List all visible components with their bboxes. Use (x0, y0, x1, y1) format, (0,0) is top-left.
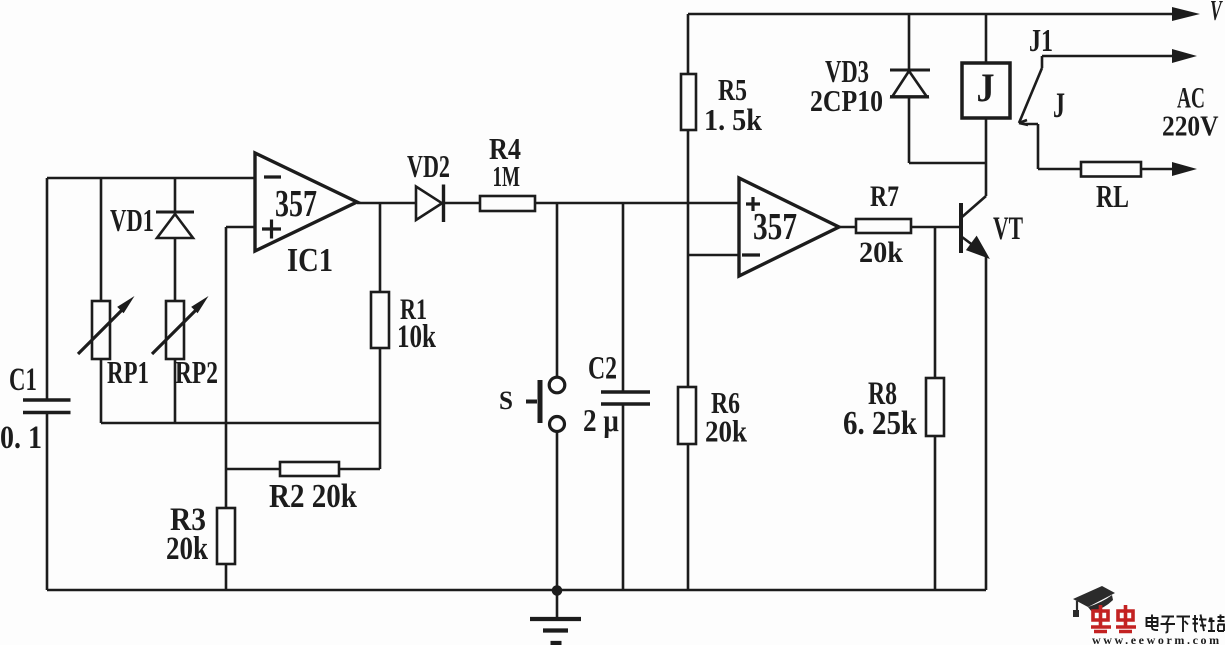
svg-text:VD1: VD1 (110, 202, 154, 238)
svg-text:220V: 220V (1162, 110, 1219, 142)
svg-text:C1: C1 (9, 362, 37, 398)
svg-text:RL: RL (1096, 180, 1129, 215)
svg-text:RP2: RP2 (175, 356, 218, 391)
svg-text:J: J (977, 66, 995, 110)
svg-text:V: V (1210, 0, 1223, 27)
svg-text:VD3: VD3 (825, 53, 869, 89)
svg-text:20k: 20k (166, 529, 208, 566)
svg-text:0. 1: 0. 1 (0, 419, 42, 456)
svg-text:R7: R7 (870, 179, 899, 212)
svg-text:2CP10: 2CP10 (810, 85, 883, 119)
svg-text:1. 5k: 1. 5k (704, 104, 762, 137)
svg-text:R5: R5 (718, 72, 747, 107)
svg-text:R2 20k: R2 20k (269, 477, 357, 515)
svg-text:2 μ: 2 μ (583, 404, 619, 438)
svg-text:VT: VT (993, 211, 1023, 248)
svg-text:10k: 10k (397, 319, 437, 355)
svg-text:357: 357 (275, 183, 317, 225)
svg-text:RP1: RP1 (107, 355, 149, 391)
svg-text:C2: C2 (588, 350, 617, 387)
svg-text:1M: 1M (493, 161, 520, 193)
svg-text:VD2: VD2 (407, 148, 450, 184)
svg-text:S: S (499, 386, 513, 415)
svg-text:357: 357 (753, 207, 797, 248)
svg-text:www.eeworm.com: www.eeworm.com (1092, 633, 1222, 645)
svg-text:20k: 20k (859, 236, 904, 269)
svg-text:20k: 20k (705, 415, 748, 449)
svg-text:IC1: IC1 (287, 241, 333, 279)
svg-text:J: J (1053, 85, 1065, 125)
svg-text:J1: J1 (1029, 24, 1053, 59)
svg-text:6. 25k: 6. 25k (843, 404, 917, 442)
